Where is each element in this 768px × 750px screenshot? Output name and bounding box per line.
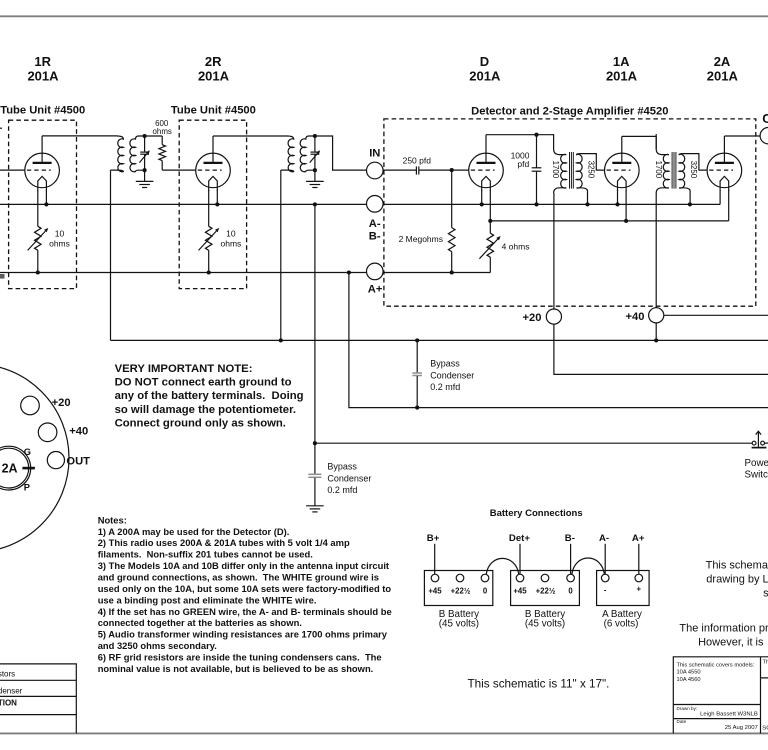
svg-text:A-: A- — [369, 218, 381, 230]
svg-text:C: C — [762, 111, 768, 126]
svg-text:nominal value is not available: nominal value is not available, but is b… — [98, 663, 374, 674]
svg-text:Leigh Bassett W3NLB: Leigh Bassett W3NLB — [700, 712, 758, 718]
terminal +20 — [546, 309, 561, 324]
svg-text:Tube Unit #4500: Tube Unit #4500 — [171, 104, 256, 116]
svg-text:used only on the 10A, but some: used only on the 10A, but some 10A sets … — [98, 583, 392, 594]
wire: ground bus — [315, 442, 752, 444]
svg-text:D: D — [480, 54, 489, 69]
wire: condenser to detector grid — [419, 169, 469, 171]
svg-text:sch: sch — [763, 587, 768, 599]
svg-text:SC: SC — [762, 725, 768, 731]
svg-text:+22½: +22½ — [536, 587, 556, 596]
svg-text:Tube Unit #4500: Tube Unit #4500 — [0, 104, 85, 116]
svg-text:0: 0 — [568, 587, 573, 596]
svg-text:4) If the set has no GREEN wir: 4) If the set has no GREEN wire, the A- … — [98, 606, 392, 617]
svg-text:201A: 201A — [27, 69, 59, 84]
RF transformer primary winding — [111, 136, 124, 172]
svg-text:connected together at the batt: connected together at the batteries as s… — [98, 617, 302, 628]
svg-text:201A: 201A — [469, 69, 501, 84]
RF transformer primary winding — [281, 136, 294, 172]
socket pin marker — [22, 467, 35, 470]
svg-text:Battery Connections: Battery Connections — [490, 508, 583, 519]
svg-text:+40: +40 — [626, 311, 645, 323]
svg-text:ohms: ohms — [153, 127, 172, 136]
svg-text:3250: 3250 — [587, 161, 596, 179]
wire: A- branch down to bypass condenser 2 — [314, 204, 316, 474]
svg-text:4 ohms: 4 ohms — [502, 242, 530, 252]
svg-text:2R: 2R — [205, 54, 222, 69]
svg-text:+20: +20 — [52, 397, 71, 409]
svg-text:1A: 1A — [613, 54, 630, 69]
svg-text:10A 4560: 10A 4560 — [677, 677, 701, 683]
svg-text:2 Megohms: 2 Megohms — [399, 234, 443, 244]
tube 2R plate — [204, 162, 223, 164]
svg-text:so will damage the potentiomet: so will damage the potentiometer. — [115, 404, 296, 416]
svg-text:10: 10 — [55, 228, 65, 238]
svg-text:3) The Models 10A and 10B diff: 3) The Models 10A and 10B differ only in… — [98, 560, 389, 571]
svg-text:1700: 1700 — [654, 161, 663, 179]
svg-text:201A: 201A — [606, 69, 638, 84]
battery A box — [597, 571, 650, 606]
wire: 1A filament legs — [617, 190, 619, 204]
svg-text:Th: Th — [763, 660, 768, 666]
ground under bypass condenser 2 — [306, 506, 324, 512]
wire: 2R right filament leg — [216, 190, 218, 204]
wire: D plate to 1000 pfd junction — [486, 134, 554, 136]
wire: +40 down to B+ rail — [655, 323, 657, 341]
svg-text:Condenser: Condenser — [0, 686, 23, 695]
wire: tuned circuit 2 to IN terminal — [315, 136, 367, 170]
terminal A- B- — [367, 196, 384, 213]
svg-text:pfd: pfd — [517, 159, 529, 169]
wire: filament supply after 4-ohm rheostat — [490, 220, 728, 222]
svg-text:5) Audio transformer winding r: 5) Audio transformer winding resistances… — [98, 629, 388, 640]
legend table (cut off at left) — [0, 664, 76, 734]
battery jumper arcs — [486, 558, 519, 574]
tube 1A grid — [607, 169, 631, 171]
tube 2A plate — [715, 162, 734, 164]
tube 2A grid — [709, 169, 733, 171]
svg-text:2A: 2A — [714, 54, 731, 69]
svg-text:This schematic covers models:: This schematic covers models: — [677, 662, 755, 668]
tube D grid — [471, 169, 495, 171]
dashed box detector/amplifier — [384, 119, 756, 306]
socket pin OUT — [47, 452, 64, 469]
svg-text:2A: 2A — [2, 462, 18, 476]
tube 2R envelope — [196, 153, 231, 188]
stray dash at left edge — [0, 127, 2, 129]
svg-text:+: + — [637, 585, 642, 594]
audio transformer T2 primary winding (1700 ohms) — [656, 134, 669, 193]
svg-text:Resistors: Resistors — [0, 669, 15, 678]
svg-text:1700: 1700 — [551, 161, 560, 179]
svg-text:201A: 201A — [707, 69, 739, 84]
resistor 600 ohms — [145, 135, 163, 137]
svg-text:The information pr: The information pr — [679, 623, 768, 635]
wire: A- / B- rail (left section) — [0, 203, 367, 205]
svg-text:filaments. Non-suffix 201 tub: filaments. Non-suffix 201 tubes cannot b… — [98, 549, 313, 560]
resistor 2 Megohms — [451, 170, 453, 228]
ground — [136, 181, 154, 187]
battery terminals — [431, 574, 439, 582]
svg-text:A+: A+ — [368, 284, 383, 296]
wire: RF primary return 2 — [280, 170, 282, 340]
socket center tube 2A: double circle — [0, 446, 31, 490]
svg-text:(6 volts): (6 volts) — [604, 618, 639, 629]
wire: A+ branch down — [349, 273, 768, 408]
tube 1A plate — [612, 162, 631, 164]
terminal IN — [367, 162, 384, 179]
svg-text:(45 volts): (45 volts) — [439, 618, 479, 629]
svg-text:Connect ground only as shown.: Connect ground only as shown. — [115, 417, 286, 429]
audio transformer T1 primary winding (1700 ohms) — [554, 134, 567, 193]
svg-text:25 Aug 2007: 25 Aug 2007 — [725, 725, 758, 731]
tuning condenser (variable) — [144, 136, 146, 152]
svg-text:A+: A+ — [632, 533, 645, 544]
svg-text:1R: 1R — [34, 54, 51, 69]
wire: 1R right filament leg — [45, 190, 47, 204]
audio transformer T1 core — [569, 152, 571, 189]
battery B2 box — [511, 571, 580, 606]
wire: A+ rail (left section) — [0, 272, 367, 274]
tube 2R filament — [209, 176, 218, 191]
wire: +20 branch down and right — [554, 324, 768, 374]
rheostat 4 ohms — [489, 190, 491, 233]
svg-text:Condenser: Condenser — [327, 473, 371, 483]
wire: 1A plate to audio transformer 2 — [622, 135, 656, 137]
svg-text:Notes:: Notes: — [98, 514, 127, 525]
wire: D left filament leg — [481, 190, 483, 204]
dashed box tube unit 2 — [179, 120, 246, 288]
svg-text:OUT: OUT — [66, 456, 90, 468]
svg-text:+20: +20 — [523, 312, 542, 324]
tube D plate — [477, 162, 496, 164]
RF transformer secondary winding — [300, 136, 315, 172]
audio transformer T2 secondary winding (3250 ohms) — [679, 154, 707, 205]
wire: 2A plate to output terminal C — [724, 135, 760, 137]
tube socket diagram: outer circle — [0, 364, 69, 552]
rheostat 10 ohms (unit 1) — [35, 226, 42, 250]
svg-text:0.2 mfd: 0.2 mfd — [430, 382, 460, 392]
terminal A+ — [367, 263, 384, 280]
svg-text:and 3250 ohms secondary.: and 3250 ohms secondary. — [98, 640, 217, 651]
svg-text:IN: IN — [369, 148, 380, 160]
socket pin +20 — [21, 396, 40, 415]
svg-text:1) A 200A may be used for the: 1) A 200A may be used for the Detector (… — [98, 526, 290, 537]
svg-text:+22½: +22½ — [451, 587, 471, 596]
svg-text:10: 10 — [226, 228, 236, 238]
tube 1R plate — [33, 162, 52, 164]
power switch — [752, 441, 756, 445]
wire: +40 to right edge — [664, 314, 768, 316]
svg-text:This schematic is 11" x 17".: This schematic is 11" x 17". — [468, 677, 610, 690]
svg-text:0.2 mfd: 0.2 mfd — [327, 485, 357, 495]
svg-text:3250: 3250 — [689, 161, 698, 179]
svg-text:+45: +45 — [428, 587, 442, 596]
svg-text:Bypass: Bypass — [430, 359, 460, 369]
tube 1R grid — [27, 169, 51, 171]
wire: +20 feed (audio T1 primary return) — [553, 193, 555, 309]
svg-text:-: - — [604, 586, 607, 595]
svg-text:any of the battery terminals.: any of the battery terminals. Doing — [115, 390, 304, 402]
svg-text:Bypass: Bypass — [327, 462, 357, 472]
audio transformer T2 core — [671, 152, 673, 189]
svg-text:ohms: ohms — [49, 239, 70, 249]
svg-text:10A 4550: 10A 4550 — [677, 670, 701, 676]
socket pin +40 — [38, 423, 57, 442]
top page border line — [0, 15, 768, 17]
svg-text:201A: 201A — [198, 69, 230, 84]
battery B1 box — [424, 571, 492, 606]
audio transformer T1 secondary winding (3250 ohms) — [577, 154, 605, 205]
wire: grid lead into tube 1R from left edge — [0, 169, 25, 171]
svg-text:6) RF grid resistors are insid: 6) RF grid resistors are inside the tuni… — [98, 651, 382, 662]
bottom page border line — [0, 732, 768, 734]
tube D filament — [482, 176, 491, 191]
svg-text:(45 volts): (45 volts) — [525, 618, 565, 629]
junction dots — [143, 134, 147, 138]
wire: A+ rail to rheostat — [383, 272, 490, 274]
tube 1R envelope — [25, 153, 60, 188]
tube 2R grid — [198, 169, 222, 171]
wire: B+ rail to +40 — [111, 339, 768, 341]
svg-text:This schematic: This schematic — [706, 559, 768, 571]
junction dots on rails — [44, 202, 48, 206]
svg-text:drawing by Leigh: drawing by Leigh — [706, 573, 768, 585]
wire: RF primary return 1 — [110, 170, 112, 340]
svg-text:0: 0 — [483, 587, 488, 596]
svg-text:CAUTION: CAUTION — [0, 699, 17, 708]
svg-text:B+: B+ — [427, 533, 440, 544]
svg-text:Det+: Det+ — [509, 533, 530, 544]
svg-text:A-: A- — [599, 533, 609, 544]
tube 1A envelope — [605, 153, 640, 188]
wire: 1R plate to RF transformer 1 — [42, 135, 117, 137]
tuning condenser (variable) — [314, 136, 316, 152]
tube 1A filament — [618, 176, 627, 191]
wire: IN to coupling condenser — [383, 169, 416, 171]
ground — [306, 181, 324, 187]
svg-text:VERY IMPORTANT NOTE:: VERY IMPORTANT NOTE: — [115, 363, 253, 375]
dashed box tube unit 1 — [9, 120, 77, 288]
svg-text:Detector and 2-Stage Amplifier: Detector and 2-Stage Amplifier #4520 — [471, 106, 668, 118]
bypass condenser 1 (0.2 mfd) — [416, 340, 418, 372]
tube 1R filament — [38, 176, 47, 191]
svg-text:B-: B- — [369, 231, 381, 243]
svg-text:Drawn by:: Drawn by: — [677, 706, 698, 711]
svg-text:+45: +45 — [513, 587, 527, 596]
svg-text:use a binding post and elimina: use a binding post and eliminate the WHI… — [98, 594, 317, 605]
svg-text:250 pfd: 250 pfd — [403, 156, 432, 166]
svg-text:B-: B- — [565, 533, 575, 544]
rheostat 10 ohms (unit 2) — [205, 226, 212, 250]
wire: 2R plate to RF transformer 2 — [213, 135, 288, 137]
wire: A- / B- rail (detector section) — [383, 203, 720, 205]
svg-text:Switch: Switch — [745, 469, 768, 480]
bypass condenser 2 (0.2 mfd) — [308, 473, 321, 475]
svg-text:G: G — [24, 447, 31, 457]
condenser 1000 pfd — [536, 135, 538, 168]
wire: +40 feed (audio T2 primary return) — [655, 193, 657, 308]
svg-text:and ground connections, as sho: and ground connections, as shown. The WH… — [98, 572, 379, 583]
svg-text:DO NOT connect earth ground to: DO NOT connect earth ground to — [115, 377, 292, 389]
svg-text:Condenser: Condenser — [430, 370, 474, 380]
svg-text:P: P — [24, 482, 30, 492]
svg-text:However, it is: However, it is — [698, 636, 764, 648]
svg-text:Date: Date — [677, 719, 687, 724]
wire: 600 ohms to tube 2R grid — [162, 169, 196, 171]
svg-text:ohms: ohms — [221, 239, 242, 249]
terminal C (cut off at edge) — [760, 128, 768, 144]
svg-text:2) This radio uses 200A & 201A: 2) This radio uses 200A & 201A tubes wit… — [98, 537, 350, 548]
svg-text:+40: +40 — [69, 425, 88, 437]
RF transformer secondary winding — [130, 136, 145, 172]
tube D envelope — [469, 153, 504, 188]
smudge artifact at left edge — [0, 274, 5, 279]
tube 2A envelope — [707, 153, 742, 188]
tube 2A filament — [720, 176, 729, 191]
terminal +40 — [649, 308, 664, 323]
title block table — [673, 657, 768, 734]
wire: 2A filament legs — [719, 190, 721, 204]
svg-text:Power: Power — [745, 458, 768, 469]
junction dots — [313, 134, 317, 138]
condenser 250 pfd — [415, 166, 417, 174]
